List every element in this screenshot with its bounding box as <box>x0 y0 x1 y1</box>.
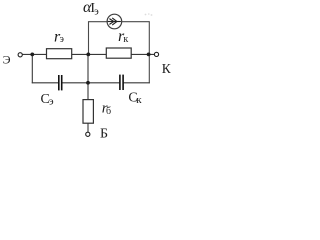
current source αIэ circle <box>107 14 122 29</box>
junction dot center node on capacitor row <box>86 81 90 85</box>
svg-text:Э: Э <box>3 53 11 67</box>
wire main horizontal Э–К <box>22 53 154 55</box>
capacitor Cэ plates <box>59 75 62 90</box>
wire capacitor row right segment (Cк to collector) <box>124 82 150 84</box>
current source arrow <box>108 18 121 25</box>
svg-text:К: К <box>162 61 172 76</box>
wire capacitor row left segment (emitter to Cэ) <box>32 82 59 84</box>
terminal Б circle <box>86 132 90 136</box>
scan noise dots <box>145 13 153 16</box>
svg-text:э: э <box>94 6 99 17</box>
svg-text:Б: Б <box>100 126 108 141</box>
svg-text:э: э <box>49 96 54 108</box>
wire vertical right (collector) top rail to capacitor row <box>148 21 150 83</box>
wire vertical center node down to rб <box>87 54 89 99</box>
resistor rк <box>106 48 131 58</box>
junction dot emitter branch <box>30 53 34 57</box>
wire vertical left (emitter) to capacitor row <box>31 54 33 83</box>
resistor rб <box>83 100 93 124</box>
svg-text:к: к <box>136 94 142 106</box>
svg-text:б: б <box>106 106 111 117</box>
junction dot center node on main wire <box>86 53 90 57</box>
resistor rэ <box>47 49 72 59</box>
wire top rail (current source branch) <box>89 21 150 23</box>
wire capacitor row middle segment (Cэ to Cк) <box>62 82 119 84</box>
terminal Э circle <box>18 53 22 57</box>
wire rб to terminal Б <box>87 123 89 132</box>
svg-text:к: к <box>123 34 128 45</box>
terminal К circle <box>154 52 158 56</box>
svg-text:э: э <box>60 34 64 45</box>
capacitor Cк plates <box>120 75 123 90</box>
junction dot collector branch <box>147 53 151 57</box>
wire vertical center node to top rail <box>88 21 90 54</box>
